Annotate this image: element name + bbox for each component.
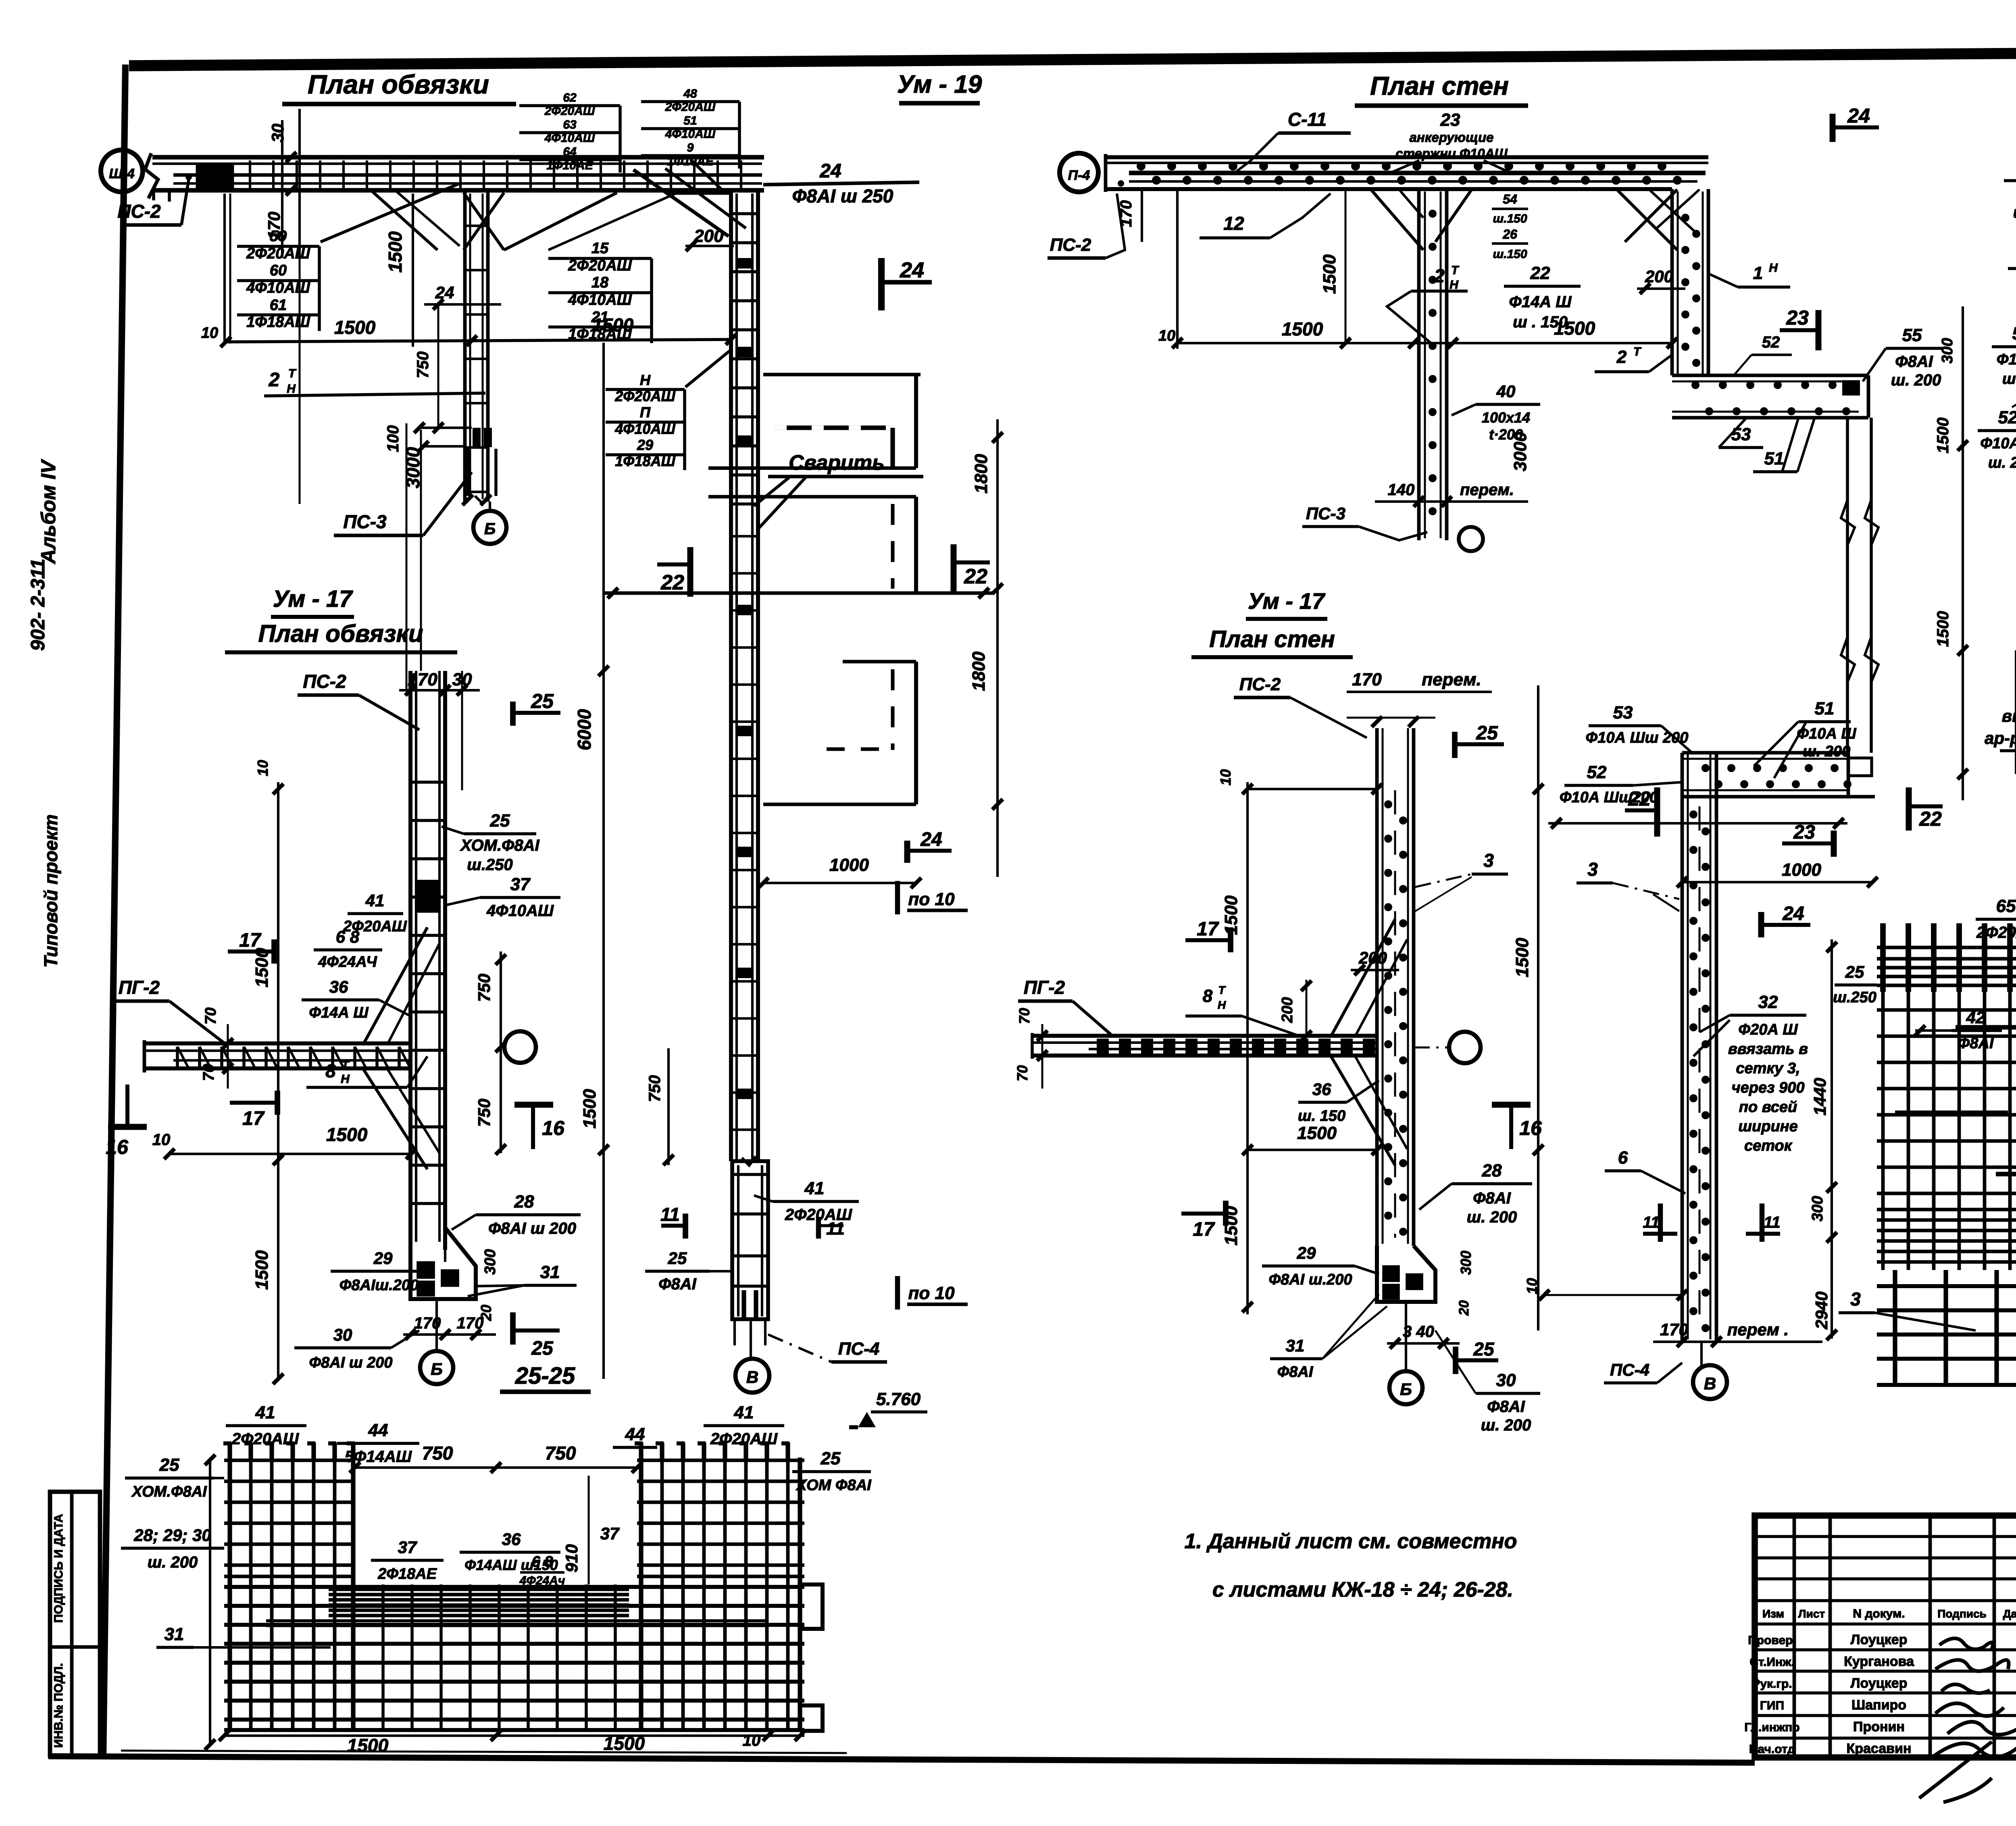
23-23 left dim chain bbox=[1962, 306, 1964, 800]
mesh panel 1 bottom line with break bbox=[708, 466, 916, 470]
tie beam plan Um-19: left break mark bbox=[145, 153, 158, 198]
sten beam band bbox=[1106, 155, 1708, 159]
svg-text:Ст.Инж.: Ст.Инж. bbox=[1749, 1655, 1794, 1669]
svg-text:1500: 1500 bbox=[252, 948, 272, 987]
svg-text:17: 17 bbox=[242, 1108, 265, 1129]
svg-text:23: 23 bbox=[1786, 306, 1809, 329]
svg-text:3: 3 bbox=[1850, 1289, 1861, 1310]
25-25 mid-span verticals (slab only) bbox=[381, 1584, 385, 1731]
axis circle Sh-4 bbox=[101, 150, 143, 192]
svg-text:37: 37 bbox=[398, 1538, 417, 1557]
PG-2 beam (Um-17 sten) bbox=[1032, 1034, 1377, 1038]
svg-text:8: 8 bbox=[325, 1060, 336, 1081]
svg-text:стержни Ф10АШ: стержни Ф10АШ bbox=[1395, 146, 1508, 161]
bottom-left stamp column box bbox=[50, 1492, 100, 1756]
svg-text:сеток: сеток bbox=[1744, 1137, 1793, 1154]
svg-text:750: 750 bbox=[414, 352, 432, 379]
svg-text:ш. 200: ш. 200 bbox=[1467, 1208, 1517, 1226]
svg-text:11: 11 bbox=[826, 1219, 845, 1239]
leader 59-block to beam bbox=[321, 183, 460, 242]
svg-text:1500: 1500 bbox=[580, 1089, 600, 1128]
svg-text:6 8: 6 8 bbox=[532, 1553, 554, 1570]
svg-text:План стен: План стен bbox=[1370, 71, 1509, 100]
S-3 slab right bracket bbox=[1847, 753, 1850, 797]
svg-text:Б: Б bbox=[431, 1360, 443, 1378]
svg-text:20: 20 bbox=[1456, 1300, 1472, 1316]
svg-text:ш. 200: ш. 200 bbox=[2013, 204, 2016, 221]
svg-text:41: 41 bbox=[255, 1403, 275, 1422]
svg-text:24: 24 bbox=[1782, 903, 1804, 924]
svg-text:51: 51 bbox=[683, 114, 697, 127]
svg-text:31: 31 bbox=[1286, 1336, 1305, 1355]
svg-text:Н: Н bbox=[287, 382, 296, 396]
svg-text:ш.150: ш.150 bbox=[1493, 212, 1527, 225]
extension lines down to Um-17 plan bbox=[406, 423, 408, 690]
svg-text:ПС-4: ПС-4 bbox=[1610, 1360, 1649, 1379]
left leg strip (sten) bbox=[1417, 189, 1421, 540]
svg-text:300: 300 bbox=[1809, 1196, 1826, 1221]
V1 ladder rungs bbox=[732, 212, 757, 215]
svg-text:Гл.инжпр: Гл.инжпр bbox=[1744, 1721, 1799, 1734]
section mark 23 (sten) bbox=[1816, 310, 1822, 350]
svg-text:2Ф20АШ: 2Ф20АШ bbox=[1976, 924, 2016, 941]
svg-text:1800: 1800 bbox=[971, 454, 991, 493]
svg-text:1500: 1500 bbox=[1320, 254, 1339, 294]
V3 ladder rungs bbox=[411, 781, 444, 784]
svg-text:300: 300 bbox=[1458, 1251, 1474, 1275]
svg-text:44: 44 bbox=[625, 1424, 645, 1444]
svg-text:15: 15 bbox=[591, 240, 609, 257]
svg-text:910: 910 bbox=[562, 1544, 581, 1572]
sten dim row 1500 bbox=[1176, 189, 1179, 349]
svg-text:29: 29 bbox=[637, 437, 653, 453]
svg-text:300: 300 bbox=[1939, 338, 1956, 363]
svg-text:25: 25 bbox=[531, 690, 554, 712]
long dim line x=690 left chain bbox=[277, 782, 279, 1379]
svg-text:ПС-2: ПС-2 bbox=[303, 671, 346, 692]
svg-text:Альбом IV: Альбом IV bbox=[37, 459, 60, 564]
svg-text:30: 30 bbox=[1496, 1370, 1516, 1390]
mesh panel 1 right edge bbox=[914, 375, 918, 468]
svg-text:1500: 1500 bbox=[252, 1250, 272, 1290]
mesh panel 3 dashed horizontal bbox=[827, 747, 893, 751]
junction diagonals (Um-17 sten) bbox=[1331, 919, 1395, 1037]
title block signatures squiggle bbox=[1919, 1639, 2016, 1802]
svg-text:ш. 200: ш. 200 bbox=[1891, 371, 1941, 389]
svg-text:Т: Т bbox=[1633, 345, 1642, 358]
svg-text:100: 100 bbox=[384, 425, 402, 452]
svg-text:54: 54 bbox=[1503, 192, 1517, 206]
section mark 24 (right of plan) bbox=[878, 258, 885, 310]
svg-text:8: 8 bbox=[1203, 986, 1213, 1006]
mesh panel 2 right edge bbox=[914, 497, 918, 593]
svg-text:1Ф18АШ: 1Ф18АШ bbox=[615, 453, 675, 469]
svg-text:32: 32 bbox=[1758, 992, 1778, 1012]
svg-text:перем.: перем. bbox=[1460, 481, 1514, 499]
svg-text:10: 10 bbox=[152, 1131, 171, 1149]
section marks 22 center pair bbox=[1654, 787, 1660, 837]
right wall S-3 top slab (Um-17 sten) bbox=[1682, 751, 1848, 755]
svg-text:22: 22 bbox=[964, 565, 987, 588]
24-24 dense lap band left bbox=[1877, 1208, 2016, 1212]
svg-text:по всей: по всей bbox=[1739, 1099, 1797, 1116]
svg-text:4Ф10АШ: 4Ф10АШ bbox=[486, 902, 554, 920]
V1 box inner verticals bottom bbox=[741, 1290, 746, 1318]
leader 48-block to corner bbox=[690, 159, 726, 194]
svg-text:Изм: Изм bbox=[1762, 1607, 1784, 1620]
axis circle B under S1 bbox=[473, 511, 506, 544]
svg-text:Ф8АІ ш 200: Ф8АІ ш 200 bbox=[488, 1220, 576, 1237]
svg-text:63: 63 bbox=[563, 118, 577, 131]
section mark 25 (Um-17 sten) bbox=[1452, 732, 1458, 758]
svg-text:1500: 1500 bbox=[385, 231, 406, 273]
svg-text:750: 750 bbox=[646, 1075, 664, 1102]
svg-text:65: 65 bbox=[1996, 896, 2016, 916]
section mark 22 left bbox=[687, 547, 694, 597]
svg-text:11: 11 bbox=[1764, 1214, 1781, 1231]
svg-text:70: 70 bbox=[1014, 1065, 1031, 1081]
mesh panel 3 dashed vertical bbox=[891, 669, 895, 750]
svg-text:200: 200 bbox=[1279, 997, 1296, 1023]
svg-text:29: 29 bbox=[1297, 1243, 1316, 1262]
25-25 slab horizontal bars bbox=[224, 1585, 804, 1589]
svg-text:25: 25 bbox=[1473, 1339, 1495, 1360]
S-3 slab dots bbox=[1702, 764, 1710, 772]
svg-text:30: 30 bbox=[268, 124, 287, 143]
svg-text:План стен: План стен bbox=[1209, 626, 1335, 652]
leg junction diagonals bbox=[1371, 189, 1423, 250]
svg-text:1500: 1500 bbox=[1297, 1123, 1337, 1143]
junction diagonals (Um-17) bbox=[363, 927, 427, 1045]
svg-text:ш. 200: ш. 200 bbox=[1988, 454, 2016, 471]
svg-text:Ф8АІ: Ф8АІ bbox=[1277, 1364, 1314, 1380]
svg-text:ш. 200: ш. 200 bbox=[1481, 1416, 1531, 1434]
svg-text:Ф8АІ ш.200: Ф8АІ ш.200 bbox=[1268, 1271, 1352, 1288]
svg-text:3000: 3000 bbox=[1510, 432, 1530, 471]
label po 10 bbox=[895, 881, 900, 914]
svg-text:25: 25 bbox=[159, 1455, 179, 1475]
svg-text:16: 16 bbox=[542, 1117, 565, 1139]
svg-text:Ф8АІш.200: Ф8АІш.200 bbox=[339, 1277, 419, 1294]
svg-text:5.760: 5.760 bbox=[876, 1389, 921, 1409]
svg-text:100х14: 100х14 bbox=[1482, 409, 1530, 426]
dim 750 vertical at S1 bbox=[424, 303, 501, 306]
mesh panel 2 bottom line bbox=[603, 591, 993, 595]
Z-step slab dots bbox=[1691, 381, 1699, 389]
svg-text:6000: 6000 bbox=[574, 709, 595, 750]
mesh panel 1 top line bbox=[763, 373, 921, 377]
svg-text:52: 52 bbox=[1998, 408, 2016, 427]
dim row y=845 (1500,1500) bbox=[226, 339, 731, 342]
svg-text:52: 52 bbox=[1762, 333, 1780, 351]
wall dots (Um-17 sten) bbox=[1384, 800, 1392, 808]
section mark 17 lower (sten) bbox=[1223, 1201, 1229, 1226]
svg-text:ПС-2: ПС-2 bbox=[117, 201, 161, 222]
svg-text:В: В bbox=[1704, 1374, 1716, 1393]
svg-text:ПС-2: ПС-2 bbox=[1239, 675, 1281, 694]
svg-text:48: 48 bbox=[683, 87, 697, 100]
svg-text:Ф8АІ ш 200: Ф8АІ ш 200 bbox=[309, 1354, 392, 1371]
svg-text:9: 9 bbox=[687, 141, 694, 154]
svg-text:61: 61 bbox=[270, 297, 287, 314]
svg-text:ввязать в: ввязать в bbox=[1728, 1041, 1808, 1058]
svg-text:10: 10 bbox=[1158, 327, 1175, 344]
svg-text:Н: Н bbox=[640, 372, 651, 388]
svg-text:2Ф20АШ: 2Ф20АШ bbox=[231, 1430, 299, 1448]
Z junction diagonals bbox=[1617, 189, 1677, 250]
svg-text:1500: 1500 bbox=[1512, 938, 1532, 977]
Z-step right bracket bbox=[1867, 375, 1870, 418]
svg-text:52: 52 bbox=[1587, 762, 1607, 782]
svg-text:2: 2 bbox=[1434, 265, 1445, 286]
section mark 17 upper bbox=[271, 939, 277, 964]
svg-text:11: 11 bbox=[660, 1204, 680, 1225]
svg-text:41: 41 bbox=[734, 1403, 754, 1422]
svg-text:Сварить: Сварить bbox=[789, 451, 885, 475]
section mark 17 upper (sten) bbox=[1228, 927, 1233, 952]
svg-text:22: 22 bbox=[660, 571, 684, 594]
25-25 slab dense lap bars bbox=[329, 1588, 629, 1591]
dim 200 near corner bbox=[685, 245, 734, 247]
svg-text:17: 17 bbox=[1197, 918, 1219, 940]
svg-text:Ум - 19: Ум - 19 bbox=[897, 71, 982, 98]
title block internal verticals (left table) bbox=[1793, 1516, 1796, 1757]
svg-text:Провер.: Провер. bbox=[1748, 1634, 1796, 1647]
tie beam: lower face ticks at left end bbox=[152, 190, 155, 200]
PG-2 sten dark dot fill bbox=[1097, 1039, 1109, 1054]
right wall strip S-3 bbox=[1681, 753, 1684, 1342]
sten beam dot row 2 bbox=[1152, 176, 1161, 185]
svg-text:4Ф24Ач: 4Ф24Ач bbox=[519, 1574, 565, 1587]
section mark 25 (top) bbox=[510, 702, 516, 726]
svg-text:через 900: через 900 bbox=[1732, 1079, 1805, 1096]
svg-text:24: 24 bbox=[920, 829, 942, 850]
24-24 heavy top stubs bbox=[1880, 923, 1886, 992]
svg-text:64: 64 bbox=[563, 145, 577, 158]
mesh panel 2 dashed vertical bbox=[891, 504, 895, 589]
svg-text:План обвязки: План обвязки bbox=[308, 69, 489, 99]
mesh panel 3 right edge bbox=[914, 662, 918, 804]
svg-text:750: 750 bbox=[545, 1443, 576, 1464]
svg-text:ПГ-2: ПГ-2 bbox=[1024, 977, 1065, 998]
sheet top border bbox=[129, 50, 2016, 66]
24-24 vertical bars left part bbox=[1881, 941, 1885, 1270]
svg-text:36: 36 bbox=[329, 977, 348, 996]
dim 100 pair at S1 bottom bbox=[419, 427, 472, 429]
svg-text:22: 22 bbox=[1530, 263, 1550, 283]
25-25 bottom dim row bbox=[224, 1734, 804, 1737]
svg-text:Т: Т bbox=[342, 1059, 350, 1072]
section mark 25 (bottom) bbox=[510, 1312, 516, 1345]
svg-text:5Ф14АШ: 5Ф14АШ bbox=[345, 1448, 412, 1466]
section mark 11 left (S-3) bbox=[1658, 1203, 1663, 1242]
svg-text:Курганова: Курганова bbox=[1844, 1654, 1914, 1669]
svg-text:ар-ры днища: ар-ры днища bbox=[1985, 729, 2016, 747]
svg-text:55: 55 bbox=[1902, 325, 1922, 345]
wall strip V3 (Um-17) bbox=[408, 671, 412, 1250]
svg-text:170: 170 bbox=[1117, 200, 1135, 227]
svg-text:28: 28 bbox=[1482, 1161, 1502, 1181]
svg-text:ГИП: ГИП bbox=[1760, 1699, 1784, 1712]
svg-text:сетку 3,: сетку 3, bbox=[1736, 1060, 1800, 1077]
svg-text:25: 25 bbox=[668, 1249, 687, 1268]
svg-text:ш. 150: ш. 150 bbox=[1298, 1108, 1345, 1124]
svg-text:41: 41 bbox=[804, 1178, 825, 1198]
svg-text:Ф10А Ш: Ф10А Ш bbox=[1797, 725, 1856, 742]
24-24 left dim chain bbox=[1831, 939, 1833, 1339]
svg-text:4Ф10АШ: 4Ф10АШ bbox=[246, 279, 310, 296]
S1 bottom box and blobs bbox=[473, 428, 481, 447]
tie beam plan Um-19: beam band bbox=[152, 155, 764, 159]
svg-text:Н: Н bbox=[341, 1072, 350, 1086]
sheet bottom border bbox=[48, 1756, 1755, 1763]
Z-wall strip (sten) bbox=[1670, 189, 1674, 375]
section mark 17 lower bbox=[275, 1091, 280, 1115]
svg-text:44: 44 bbox=[368, 1420, 388, 1440]
svg-text:2Ф20АШ: 2Ф20АШ bbox=[614, 388, 675, 404]
svg-text:4Ф10АШ: 4Ф10АШ bbox=[665, 127, 716, 141]
svg-text:анкерующие: анкерующие bbox=[1410, 130, 1494, 145]
svg-text:Н: Н bbox=[1769, 261, 1778, 275]
wall corner leg V1 (Um-19) bbox=[729, 190, 733, 1161]
svg-text:22: 22 bbox=[1919, 808, 1942, 830]
svg-text:41: 41 bbox=[365, 891, 385, 910]
svg-text:ПГ-2: ПГ-2 bbox=[119, 977, 160, 998]
S-3 wall dots bbox=[1689, 810, 1697, 818]
node circle (Um-17 plan) bbox=[504, 1031, 536, 1063]
mesh panel 2 top line bbox=[708, 495, 916, 499]
svg-text:23: 23 bbox=[1440, 110, 1460, 130]
section mark 22 right bbox=[951, 544, 957, 595]
svg-text:36: 36 bbox=[1312, 1080, 1331, 1099]
svg-text:750: 750 bbox=[422, 1443, 453, 1464]
dim row 1500 (bottom of Um-17 plan) bbox=[169, 1153, 411, 1155]
svg-text:37: 37 bbox=[510, 874, 531, 894]
svg-text:ХОМ Ф8АІ: ХОМ Ф8АІ bbox=[796, 1477, 872, 1494]
svg-text:ПОДПИСЬ И ДАТА: ПОДПИСЬ И ДАТА bbox=[52, 1514, 65, 1623]
dim chain x=1658 (750) bbox=[667, 1048, 670, 1165]
svg-text:1500: 1500 bbox=[592, 314, 634, 335]
diagonals from beam to S1 and wall corner bbox=[371, 190, 437, 250]
axis circle B (Um-17 obvyazka) bbox=[420, 1351, 453, 1384]
Z-wall dots bbox=[1681, 214, 1689, 222]
svg-text:Типовой проект: Типовой проект bbox=[40, 814, 61, 968]
svg-text:1Ф18АШ: 1Ф18АШ bbox=[246, 314, 310, 331]
svg-text:10: 10 bbox=[743, 1732, 761, 1749]
svg-text:Ф10А Шш 200: Ф10А Шш 200 bbox=[1586, 729, 1689, 746]
svg-text:ПС-3: ПС-3 bbox=[1306, 504, 1345, 523]
svg-text:1500: 1500 bbox=[1934, 418, 1952, 454]
section mark 11 left bbox=[683, 1214, 688, 1239]
axis circle at leg bottom (sten) bbox=[1459, 527, 1483, 551]
svg-text:План обвязки: План обвязки bbox=[258, 620, 423, 647]
svg-text:Ф8АІ: Ф8АІ bbox=[1958, 1035, 1994, 1052]
V3 junction dark blocks bbox=[416, 881, 439, 895]
svg-text:1500: 1500 bbox=[326, 1124, 368, 1145]
svg-text:Т: Т bbox=[1451, 264, 1460, 277]
long extension line x=3815 bbox=[1537, 685, 1539, 1330]
V1 break mark at box top bbox=[742, 1156, 756, 1165]
25-25 right column horizontal rungs bbox=[637, 1459, 804, 1462]
svg-text:ш.150: ш.150 bbox=[1493, 248, 1527, 261]
svg-text:62: 62 bbox=[563, 91, 577, 104]
svg-text:60: 60 bbox=[270, 262, 287, 279]
svg-text:59: 59 bbox=[270, 228, 287, 245]
svg-text:6: 6 bbox=[1618, 1148, 1628, 1168]
tie beam: stirrup ticks bbox=[249, 160, 251, 190]
leader N-block to V1 bbox=[685, 351, 730, 387]
dim 170/30 extension through beam bbox=[281, 120, 283, 258]
svg-text:26: 26 bbox=[1502, 227, 1517, 242]
25-25 left column grid verticals bbox=[227, 1457, 232, 1731]
24-24 lower sparse bars left bbox=[1877, 1284, 2016, 1288]
svg-text:по 10: по 10 bbox=[908, 1283, 955, 1303]
vertical dim chain x=2474 (1800/1800) bbox=[996, 419, 999, 877]
Z-step slab bbox=[1672, 374, 1868, 377]
PG-2 beam (Um-17) bbox=[144, 1041, 412, 1045]
svg-text:Ф8АІ: Ф8АІ bbox=[658, 1275, 696, 1293]
mesh panel 1 dashed inner lines bbox=[775, 425, 893, 430]
svg-text:750: 750 bbox=[475, 974, 494, 1002]
svg-text:3: 3 bbox=[1483, 850, 1494, 871]
sten beam left cap bbox=[1104, 154, 1108, 192]
svg-text:ш. 200: ш. 200 bbox=[148, 1553, 198, 1571]
svg-text:Дата: Дата bbox=[2003, 1607, 2016, 1620]
section mark 23 (S-3) bbox=[1831, 831, 1837, 857]
section mark 16 (sten) bbox=[1492, 1102, 1531, 1108]
svg-text:4Ф10АШ: 4Ф10АШ bbox=[614, 421, 675, 437]
corner chamfer diagonals bbox=[633, 170, 729, 236]
mesh panel 3 top line bbox=[843, 660, 916, 664]
svg-text:2940: 2940 bbox=[1812, 1291, 1831, 1329]
svg-text:2: 2 bbox=[1616, 347, 1627, 367]
foot Um-17 sten bbox=[1377, 1246, 1435, 1302]
dim row 750/750 bbox=[355, 1466, 637, 1469]
svg-text:Ф8АІ ш 250: Ф8АІ ш 250 bbox=[792, 185, 893, 206]
svg-text:П-4: П-4 bbox=[1068, 168, 1090, 183]
svg-text:ПС-4: ПС-4 bbox=[838, 1339, 880, 1359]
svg-text:25-25: 25-25 bbox=[515, 1363, 575, 1389]
svg-text:24: 24 bbox=[1847, 104, 1870, 127]
svg-text:Н: Н bbox=[1218, 999, 1226, 1011]
svg-text:3000: 3000 bbox=[402, 447, 423, 488]
section mark 24 (sten top) bbox=[1830, 114, 1836, 142]
svg-text:140: 140 bbox=[1388, 481, 1415, 499]
svg-text:25: 25 bbox=[531, 1338, 554, 1359]
svg-text:Ф20А Ш: Ф20А Ш bbox=[1738, 1021, 1798, 1038]
svg-text:10: 10 bbox=[1217, 769, 1234, 785]
section mark 24 (S-3) bbox=[1758, 912, 1764, 937]
svg-text:Ф10А Ш: Ф10А Ш bbox=[1980, 435, 2016, 452]
25-25 right column grid verticals bbox=[639, 1457, 643, 1731]
svg-text:ш.250: ш.250 bbox=[467, 856, 512, 874]
svg-text:6 8: 6 8 bbox=[336, 927, 360, 946]
svg-text:70: 70 bbox=[200, 1064, 217, 1081]
svg-text:Шапиро: Шапиро bbox=[1851, 1697, 1906, 1713]
section mark 11 right (S-3) bbox=[1760, 1203, 1765, 1242]
svg-text:Лоуцкер: Лоуцкер bbox=[1851, 1676, 1908, 1691]
svg-text:25: 25 bbox=[821, 1449, 841, 1468]
svg-text:40: 40 bbox=[1496, 382, 1516, 401]
svg-text:1. Данный лист см. совместн: 1. Данный лист см. совместно bbox=[1185, 1530, 1517, 1553]
svg-text:Ум - 17: Ум - 17 bbox=[273, 586, 354, 612]
svg-text:24: 24 bbox=[900, 258, 924, 282]
sten beam dot row 1 bbox=[1137, 162, 1145, 171]
svg-text:3 40: 3 40 bbox=[1403, 1323, 1434, 1341]
long dim line x=1497 (6000 chain) bbox=[602, 343, 605, 1379]
trapezoid leaders for anker label bbox=[1391, 160, 1419, 173]
svg-text:10: 10 bbox=[201, 325, 218, 341]
